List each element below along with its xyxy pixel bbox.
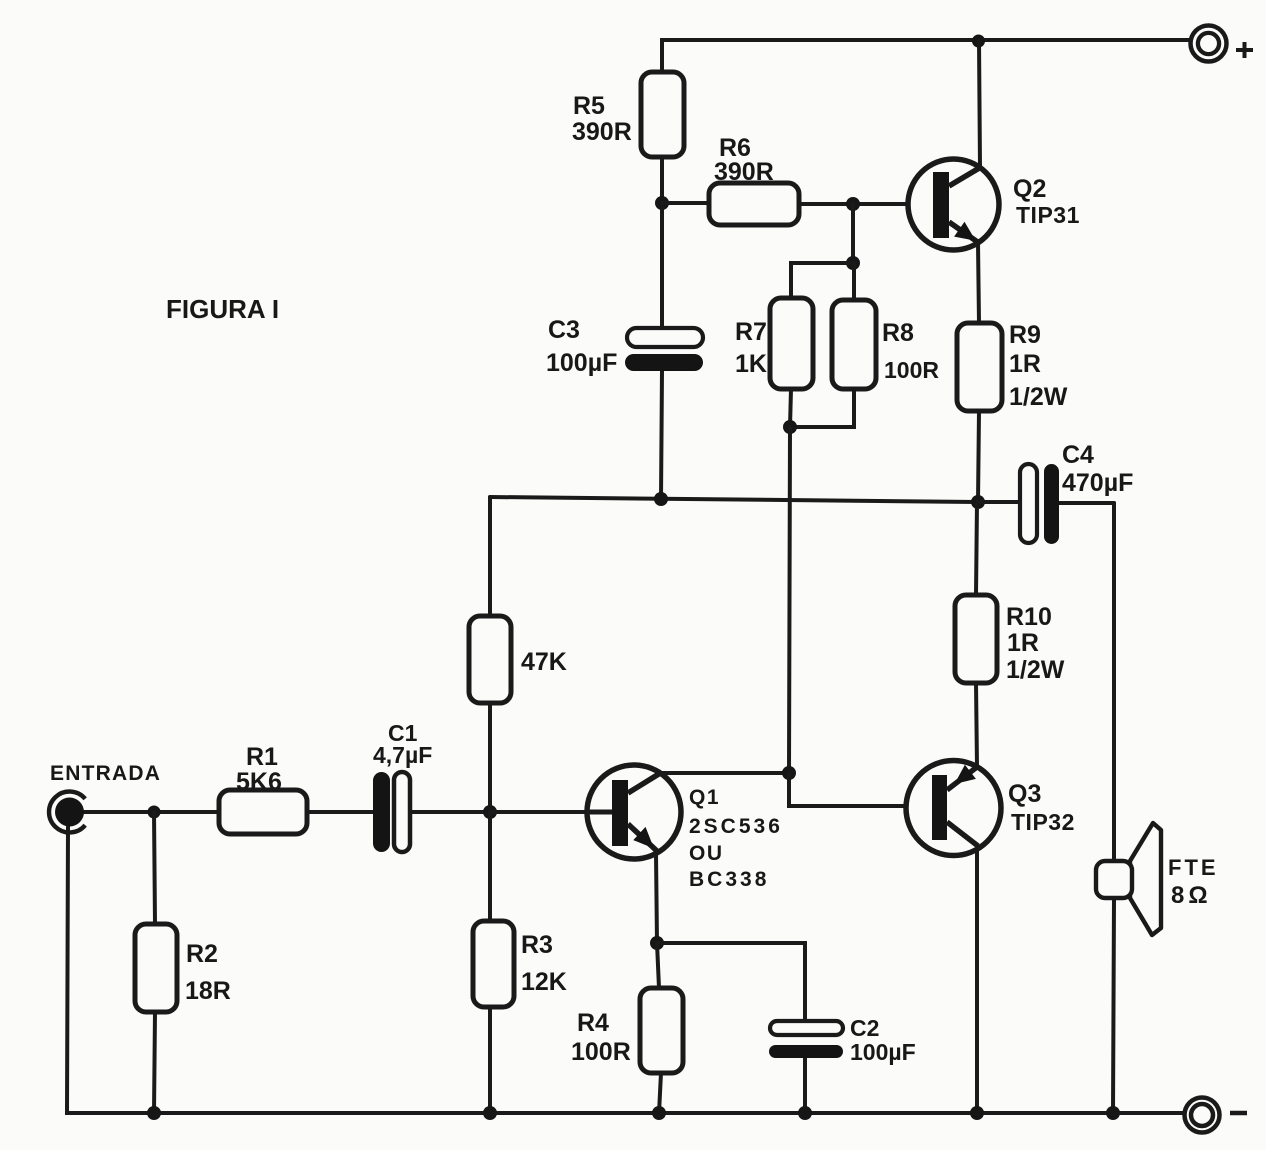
svg-text:2SC536: 2SC536 [689, 815, 783, 838]
svg-text:R8: R8 [882, 319, 914, 347]
wire base node down to R3 [488, 812, 492, 921]
svg-text:R9: R9 [1009, 321, 1041, 349]
svg-text:C2: C2 [850, 1015, 879, 1041]
wire R1 to C1 [307, 810, 373, 814]
wire speaker column lower [1113, 898, 1114, 1113]
wire R7 bottom [790, 389, 791, 427]
svg-text:ENTRADA: ENTRADA [50, 762, 161, 785]
wire C1 to base node [409, 810, 490, 814]
svg-text:Q1: Q1 [689, 786, 720, 809]
wire node to R6 left [662, 201, 709, 205]
wire input terminal to R1 [84, 810, 219, 814]
resistor R3 [473, 921, 567, 1007]
svg-text:100µF: 100µF [850, 1039, 916, 1065]
svg-text:C3: C3 [548, 316, 580, 344]
svg-text:100µF: 100µF [546, 349, 617, 377]
node R7/R8 bottom junction [783, 420, 797, 434]
svg-text:8Ω: 8Ω [1171, 882, 1212, 909]
node rail R3 [483, 1106, 497, 1120]
svg-text:R5: R5 [573, 92, 605, 120]
wire R6 right to Q2 base [799, 202, 909, 206]
wire mid rail left corner down to 47K [488, 497, 492, 616]
node rail speaker [1106, 1106, 1120, 1120]
wire to R8 top [852, 263, 856, 300]
wire R10 bottom to Q3 emitter [976, 683, 977, 767]
svg-text:R2: R2 [186, 940, 218, 968]
capacitor C2 [769, 1015, 916, 1065]
svg-text:Q2: Q2 [1013, 175, 1046, 203]
svg-text:100R: 100R [571, 1038, 631, 1066]
resistor R8 [832, 300, 939, 389]
wire R4 bottom to rail [659, 1073, 661, 1113]
transistor Q3 [906, 761, 1075, 856]
svg-text:R4: R4 [577, 1009, 609, 1037]
wire 47K bottom to input node [488, 703, 492, 812]
svg-text:TIP32: TIP32 [1011, 809, 1075, 835]
wire R8 bottom [790, 389, 854, 427]
wire step down to Q3 base [789, 773, 932, 806]
node rail R2 [147, 1106, 161, 1120]
wire input node down to R2 [154, 812, 155, 924]
node input branch [148, 806, 161, 819]
svg-text:470µF: 470µF [1062, 469, 1133, 497]
resistor R9 [957, 321, 1068, 411]
svg-text:4,7µF: 4,7µF [373, 742, 432, 768]
wire node to R4 top [657, 943, 659, 988]
wire C2 bottom to rail [803, 1058, 807, 1113]
svg-text:1R: 1R [1009, 350, 1041, 378]
wire Q1 emitter down [656, 854, 657, 943]
wire branch down from base wire [851, 204, 855, 263]
svg-text:FTE: FTE [1168, 855, 1219, 880]
terminal ENTRADA input [49, 762, 161, 833]
capacitor C1 [373, 720, 432, 852]
wire R2 bottom to ground rail [154, 1012, 155, 1113]
resistor R2 [135, 924, 231, 1012]
svg-text:18R: 18R [185, 977, 231, 1005]
node Q1 emitter / R4 / C2 branch [650, 936, 664, 950]
svg-text:R3: R3 [521, 931, 553, 959]
capacitor C4 [1020, 441, 1133, 544]
svg-text:47K: 47K [521, 648, 567, 676]
resistor R7 [735, 298, 813, 389]
resistor R6 [709, 134, 799, 225]
wire R5 bottom to node [660, 157, 664, 203]
svg-text:R7: R7 [735, 318, 767, 346]
svg-text:1K: 1K [735, 350, 767, 378]
wire Q3 collector down [975, 849, 979, 1113]
node R9/R10/C4 junction [971, 495, 985, 509]
wire C4 left lead [978, 500, 1020, 504]
wire C3 bottom to mid rail [661, 371, 662, 499]
wire to R7 top [791, 263, 853, 298]
wire C4 right lead [1059, 501, 1114, 505]
svg-text:TIP31: TIP31 [1016, 202, 1080, 228]
svg-text:100R: 100R [884, 357, 939, 383]
wire R9 bottom to node [978, 411, 979, 502]
node R6-Q2 wire to R7/R8 branch [846, 197, 860, 211]
wire R3 bottom to ground rail [488, 1007, 492, 1113]
wire long descent to Q1 collector line [789, 427, 790, 773]
node Q1 collector junction [782, 766, 796, 780]
svg-text:R1: R1 [246, 743, 278, 771]
wire C2 branch horizontal and down [657, 943, 805, 1021]
wire Q1 collector horizontal [660, 771, 789, 775]
node rail Q3 collector [970, 1106, 984, 1120]
wire speaker column upper [1112, 503, 1116, 861]
wire Q2 emitter to R9 [978, 243, 979, 323]
wire Q1 base [490, 810, 612, 814]
resistor R4 [571, 988, 683, 1073]
svg-text:12K: 12K [521, 968, 567, 996]
svg-text:BC338: BC338 [689, 868, 769, 891]
svg-text:OU: OU [689, 842, 724, 865]
node Q1 base junction [483, 805, 497, 819]
node C3 on mid rail [654, 492, 668, 506]
terminal positive supply [1191, 26, 1254, 62]
wire R10 top [976, 502, 977, 595]
resistor R1 [219, 743, 307, 834]
speaker FTE [1096, 823, 1219, 935]
node rail R4 [652, 1106, 666, 1120]
svg-text:390R: 390R [714, 158, 774, 186]
wire Q2 collector riser [979, 41, 980, 168]
resistor 47K [469, 616, 567, 703]
wire mid horizontal rail [490, 497, 977, 502]
svg-text:1R: 1R [1007, 629, 1039, 657]
node R7/R8 top junction [846, 256, 860, 270]
transistor Q2 [908, 159, 1080, 250]
node R5/R6 junction [655, 196, 669, 210]
svg-text:Q3: Q3 [1008, 780, 1041, 808]
svg-text:5K6: 5K6 [236, 768, 282, 796]
node top rail to Q2 collector [972, 35, 985, 48]
terminal negative supply [1185, 1098, 1248, 1133]
resistor R10 [955, 595, 1065, 684]
transistor Q1 [587, 765, 783, 891]
svg-text:1/2W: 1/2W [1009, 383, 1068, 411]
wire ENTRADA down and bottom ground rail [67, 827, 1187, 1113]
wire C3 column from node [660, 203, 664, 328]
wire top supply rail [662, 40, 1189, 72]
svg-text:C4: C4 [1062, 441, 1094, 469]
node rail C2 [798, 1106, 812, 1120]
svg-text:390R: 390R [572, 118, 632, 146]
resistor R5 [572, 72, 684, 157]
svg-text:1/2W: 1/2W [1006, 656, 1065, 684]
capacitor C3 [546, 316, 703, 377]
svg-text:R10: R10 [1006, 603, 1052, 631]
svg-text:FIGURA I: FIGURA I [166, 294, 279, 324]
